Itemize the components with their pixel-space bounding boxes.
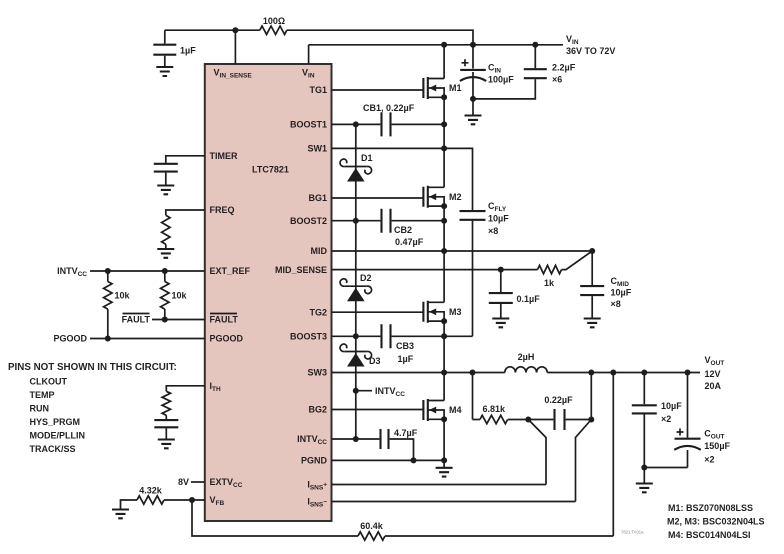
node MID_SENSE junction [498,267,504,273]
inductor 2µH [505,352,547,373]
node SW1 junction [441,145,447,151]
svg-text:2µH: 2µH [518,352,535,362]
svg-text:CB1, 0.22µF: CB1, 0.22µF [363,103,415,113]
svg-text:100µF: 100µF [488,75,514,85]
svg-text:M1: M1 [449,83,462,93]
svg-text:BG1: BG1 [308,193,327,203]
node VIN label [566,34,615,56]
svg-text:10µF: 10µF [611,288,632,298]
capacitor COUT 150µF x2 [674,373,730,468]
svg-text:100Ω: 100Ω [263,16,285,26]
svg-text:0.22µF: 0.22µF [544,395,573,405]
resistor 1k [538,265,562,288]
wire TIMER [166,156,205,163]
node INTVCC tap [353,386,405,398]
svg-text:20A: 20A [705,381,722,391]
capacitor CB3 1µF [332,324,445,364]
svg-text:CLKOUT: CLKOUT [30,377,68,387]
wire 0.22µF right to VOUT rail [590,373,592,420]
resistor 10k right [161,271,188,320]
svg-text:D2: D2 [360,273,372,283]
wire SW1 [332,148,473,210]
wire TG1 [332,89,424,91]
node junction top [232,27,238,33]
wire VOUT feedback [192,373,613,537]
op-amp U1 LTC7821 IC body [205,64,332,521]
wire M4 source chain [443,419,445,460]
resistor 100Ω [260,16,287,34]
svg-text:FREQ: FREQ [210,205,235,215]
transistor Q M3 [423,301,461,323]
node EXT_REF junctions [105,268,111,274]
svg-text:TG2: TG2 [309,307,327,317]
svg-text:HYS_PRGM: HYS_PRGM [30,417,81,427]
svg-text:CB2: CB2 [394,225,412,235]
transistor Q M2 [423,186,461,208]
text mosfet part numbers [667,503,765,540]
svg-text:RUN: RUN [30,404,50,414]
wire EXTVCC 8V [191,481,205,483]
svg-text:MODE/PLLIN: MODE/PLLIN [30,431,86,441]
node VFB junction [189,497,195,503]
svg-text:TIMER: TIMER [210,151,238,161]
ground (ith) [158,440,175,449]
pin labels right side [275,68,328,509]
svg-text:BG2: BG2 [308,405,327,415]
node VIN rail junctions [441,42,447,48]
node BOOST3 junctions [353,333,359,339]
svg-text:4.7µF: 4.7µF [394,428,418,438]
wire TG2 [332,311,424,313]
svg-text:PGOOD: PGOOD [210,334,244,344]
svg-text:EXT_REF: EXT_REF [210,266,251,276]
capacitor 4.7µF [332,428,418,460]
node M3 source [441,318,447,324]
wire CIN to 2.2µF bottom [473,79,535,99]
svg-text:BOOST3: BOOST3 [290,332,327,342]
node VOUT label [705,355,725,391]
svg-text:×8: ×8 [611,299,621,309]
ground (CMID) [584,319,601,328]
wire M3 drain [443,251,445,302]
text pins not shown [8,362,177,454]
svg-text:D1: D1 [361,153,373,163]
ground (1µF) [156,67,173,76]
wire VIN_SENSE pin [234,30,236,64]
wire M3 source chain [443,321,445,372]
svg-text:SW1: SW1 [307,144,327,154]
svg-text:10µF: 10µF [661,401,682,411]
wire SW3 / VOUT rail [332,372,701,374]
resistor ith [162,391,170,419]
capacitor CIN 100µF [460,45,514,99]
svg-text:M4: BSC014N04LSI: M4: BSC014N04LSI [668,530,751,540]
svg-text:×6: ×6 [552,75,562,85]
wire PGOOD [90,338,205,340]
ground (M4 source) [443,460,445,467]
wire ISNS- [332,420,592,502]
ground (timer cap) [157,186,174,195]
wire EXT_REF / INTVCC [90,270,205,272]
resistor freq [162,215,170,248]
node CIN bottom junction [470,96,476,102]
svg-text:MID_SENSE: MID_SENSE [275,265,327,275]
svg-text:SW3: SW3 [307,368,327,378]
node M2 source [441,203,447,209]
svg-text:BOOST1: BOOST1 [290,120,327,130]
wire M2 source chain [443,206,445,251]
capacitor CB2 0.47µF [332,209,445,247]
svg-text:M2: M2 [449,192,462,202]
capacitor timer [154,164,178,185]
diode D2 [340,273,372,301]
wire PGND [332,459,445,461]
svg-text:7821 TA01a: 7821 TA01a [621,530,644,535]
wire VFB [121,500,205,509]
capacitor 1µF [153,30,196,66]
svg-text:10µF: 10µF [488,214,509,224]
node output cap bottom junction [641,465,647,471]
svg-text:36V TO 72V: 36V TO 72V [566,46,615,56]
wire 1k to MID node diagonal [562,251,593,270]
diode D3 [340,344,380,366]
svg-text:0.47µF: 0.47µF [395,237,424,247]
svg-text:FAULT: FAULT [122,315,151,325]
wire top rail [165,30,473,45]
wire M2 drain [443,148,445,187]
svg-text:TG1: TG1 [309,85,327,95]
capacitor 0.1µF [489,270,540,318]
svg-text:LTC7821: LTC7821 [252,165,289,175]
svg-text:PGND: PGND [301,456,328,466]
svg-text:CB3: CB3 [396,341,414,351]
svg-text:D3: D3 [369,356,381,366]
capacitor 0.22µF [528,395,591,430]
capacitor ith [154,420,178,439]
svg-text:TEMP: TEMP [30,390,55,400]
svg-text:1k: 1k [544,278,555,288]
svg-text:×2: ×2 [661,414,671,424]
svg-text:M3: M3 [449,307,462,317]
svg-text:M1: BSZ070N08LSS: M1: BSZ070N08LSS [668,503,753,513]
resistor 10k left [104,271,131,339]
ground (4.32k) [112,510,129,519]
wire CFLY bottom corner [444,335,472,337]
node PGOOD junction [105,336,111,342]
svg-text:FAULT: FAULT [210,315,239,325]
svg-text:60.4k: 60.4k [360,521,384,531]
capacitor CMID 10µF x8 [580,251,631,318]
svg-text:×2: ×2 [704,455,714,465]
svg-text:1µF: 1µF [180,46,196,56]
transistor Q M4 [423,399,461,421]
wire MID [332,250,593,252]
wire ISNS+ [332,420,547,485]
svg-text:150µF: 150µF [704,441,730,451]
svg-text:12V: 12V [705,369,721,379]
node filter right junction [588,417,594,423]
resistor 60.4k [358,521,385,540]
node FAULT label left [122,314,151,325]
svg-text:BOOST2: BOOST2 [290,216,327,226]
wire VIN pin to rail [309,45,563,64]
ground (freq resistor) [157,249,174,258]
svg-text:MID: MID [311,246,328,256]
wire BG1 [332,197,424,199]
svg-text:8V: 8V [178,477,189,487]
svg-text:6.81k: 6.81k [483,404,507,414]
resistor 6.81k [473,373,529,424]
wire BG2 [332,409,424,411]
ground (0.1µF) [492,319,509,328]
svg-text:10k: 10k [115,291,131,301]
ground (output caps) [643,468,645,484]
wire output cap bottom [644,467,687,469]
capacitor CB1 0.22µF [332,103,445,136]
node filter left junction [525,417,531,423]
resistor 4.32k [137,486,164,505]
transistor Q M1 [423,77,461,99]
svg-text:0.1µF: 0.1µF [517,294,541,304]
svg-text:10k: 10k [172,291,188,301]
wire ITH [166,386,205,392]
wire MID_SENSE [332,269,538,271]
capacitor CFLY 10µF x8 [460,201,510,336]
node INTVCC pin junction [353,436,359,442]
wire FREQ [166,210,205,215]
svg-text:4.32k: 4.32k [139,486,163,496]
capacitor 2.2µF x6 [524,45,576,85]
wire FAULT [152,319,205,321]
pin labels left side [210,68,253,508]
diode D1 [340,153,372,182]
node FAULT junction [162,317,168,323]
capacitor 10µF x2 output [632,373,682,468]
node M1 source [441,94,447,100]
node PGND junctions [411,457,417,463]
node M4 source [441,416,447,422]
node SW3 junctions [441,370,447,376]
wire M1 source chain [443,97,445,148]
svg-text:PGOOD: PGOOD [53,334,87,344]
svg-text:PINS NOT SHOWN IN THIS CIRCUIT: PINS NOT SHOWN IN THIS CIRCUIT: [8,362,177,373]
wire M4 drain [443,373,445,401]
diode chain wire [355,124,357,439]
svg-text:×8: ×8 [488,226,498,236]
wire M1 drain [443,45,445,79]
node BOOST1 junctions [353,121,359,127]
svg-text:M4: M4 [449,405,462,415]
node BOOST2 junctions [353,218,359,224]
svg-text:2.2µF: 2.2µF [552,63,576,73]
ground (CIN) [472,99,474,115]
svg-text:M2, M3: BSC032N04LS: M2, M3: BSC032N04LS [667,517,765,527]
svg-text:TRACK/SS: TRACK/SS [30,444,76,454]
svg-text:1µF: 1µF [398,354,414,364]
node MID junctions [441,248,447,254]
